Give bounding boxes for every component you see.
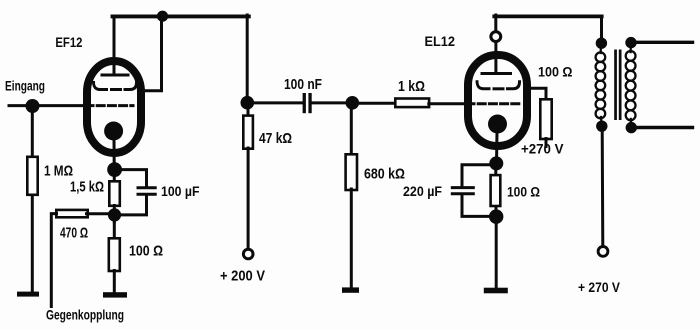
tube EL12 envelope: [468, 55, 527, 146]
wire 1M bottom lead: [31, 196, 34, 293]
wire EL12 anode to transformer (top rail right): [494, 14, 601, 18]
wire 47k top lead: [247, 106, 250, 116]
wire top rail down to anode load node: [246, 15, 249, 100]
ground below EF12 cathode resistor: [103, 292, 127, 297]
wire top cap into anode: [494, 42, 497, 74]
EF12 cathode: [104, 122, 123, 141]
wire 1,5k bottom lead: [113, 206, 116, 223]
EF12 anode plate: [102, 74, 128, 77]
wire EL12 cathode lead: [495, 132, 499, 164]
wire EF12 anode lead: [113, 17, 116, 76]
capacitor C 220uF plates: [452, 186, 473, 189]
node cathode network junction: [108, 208, 121, 221]
wire secondary output bottom: [635, 126, 693, 129]
svg-text:1 MΩ: 1 MΩ: [44, 162, 73, 179]
svg-text:+270 V: +270 V: [521, 142, 564, 157]
wire 100uF branch bottom: [118, 196, 147, 215]
wire 47k to +200V terminal: [247, 148, 250, 248]
resistor R 100 Ohm EL12 cathode: [491, 175, 501, 206]
ground below EL12 cathode: [484, 288, 508, 294]
transformer secondary top dot: [625, 37, 636, 48]
svg-text:470 Ω: 470 Ω: [60, 225, 88, 242]
resistor R 100 Ohm screen: [540, 99, 551, 139]
EF12 screen grid: [94, 83, 107, 90]
wire top cap lead up: [494, 15, 497, 32]
wire primary to +270V terminal: [601, 129, 605, 246]
wire EL12 cathode to ground: [495, 222, 498, 288]
wire screen resistor stub to +270V: [545, 139, 548, 147]
tube EF12 envelope: [87, 61, 141, 153]
ground below 1M: [17, 292, 39, 297]
svg-text:+ 200 V: + 200 V: [220, 268, 265, 285]
wire input Eingang: [9, 104, 86, 107]
svg-text:680 kΩ: 680 kΩ: [364, 165, 405, 182]
svg-text:Eingang: Eingang: [5, 79, 45, 94]
resistor R 47 kOhm: [243, 116, 253, 149]
node EL12 grid network: [346, 96, 360, 110]
wire EF12 cathode lead: [113, 139, 116, 181]
svg-text:1 kΩ: 1 kΩ: [398, 78, 425, 95]
EL12 anode plate: [482, 72, 511, 75]
svg-text:1,5 kΩ: 1,5 kΩ: [70, 179, 104, 196]
svg-text:100 Ω: 100 Ω: [507, 184, 540, 200]
EL12 control grid: [467, 102, 520, 105]
wire EF12 anode to 47k node (top rail): [113, 14, 249, 18]
svg-text:47 kΩ: 47 kΩ: [259, 130, 292, 147]
resistor R 1 MOhm: [27, 157, 37, 195]
wire down to primary: [600, 16, 603, 40]
wire node to 100nF: [247, 101, 302, 104]
svg-text:220 µF: 220 µF: [403, 184, 442, 199]
resistor R 470 Ohm: [56, 210, 87, 217]
wire secondary output top: [635, 41, 693, 44]
EF12 control grid: [86, 104, 133, 107]
wire 100uF branch top: [118, 170, 147, 187]
svg-text:100 µF: 100 µF: [161, 183, 200, 199]
EL12 screen grid: [477, 82, 489, 89]
EL12 cathode: [488, 115, 507, 134]
wire screen to top rail: [139, 17, 162, 91]
resistor R 1,5 kOhm: [109, 181, 120, 206]
wire 100 Ohm top lead: [113, 218, 116, 240]
svg-text:100 Ω: 100 Ω: [129, 243, 163, 260]
wire 470 right lead: [87, 212, 111, 215]
capacitor C 100nF: [303, 93, 306, 113]
wire EL12 cathode resistor leads: [494, 167, 497, 177]
svg-text:+ 270 V: + 270 V: [578, 279, 621, 295]
node cathode resistor bottom junction: [489, 209, 503, 223]
svg-text:Gegenkopplung: Gegenkopplung: [46, 307, 124, 322]
wire 100 Ohm bottom lead: [113, 271, 116, 293]
transformer primary winding: [596, 46, 606, 122]
transformer T1 primary top dot: [596, 38, 607, 49]
wire 220uF branch top: [462, 165, 493, 186]
wire 1k to EL12 grid: [429, 102, 467, 105]
wire 100nF to grid node: [312, 101, 353, 104]
resistor R 1 kOhm: [395, 99, 429, 108]
svg-text:EF12: EF12: [55, 34, 82, 50]
node EF12 cathode junction: [107, 162, 122, 177]
resistor R 100 Ohm EF12 cathode: [109, 238, 120, 271]
capacitor C 100uF plates: [138, 186, 155, 189]
terminal EL12 top cap: [491, 32, 501, 42]
node screen tap: [157, 11, 168, 22]
wire grid node to 1k: [353, 102, 396, 105]
wire 220uF branch bottom: [462, 195, 492, 216]
wire 680k to ground: [350, 189, 353, 289]
transformer primary bottom dot: [596, 121, 607, 132]
node EL12 cathode junction: [489, 156, 503, 170]
resistor R 680 kOhm: [346, 154, 357, 190]
node anode load / coupling: [241, 96, 255, 110]
ground below 680k: [342, 287, 359, 292]
terminal +270V output stage: [598, 247, 608, 257]
svg-text:100 Ω: 100 Ω: [538, 65, 573, 80]
transformer core: [614, 50, 617, 121]
wire 470 left lead and feedback line: [51, 214, 56, 307]
wire 680k top lead: [350, 106, 353, 155]
transformer secondary winding: [626, 46, 636, 124]
wire 1M top lead: [31, 106, 34, 157]
svg-text:100 nF: 100 nF: [284, 76, 322, 93]
terminal +200V: [243, 249, 253, 259]
svg-text:EL12: EL12: [425, 33, 456, 49]
node input junction: [26, 99, 40, 113]
transformer secondary bottom dot: [626, 122, 637, 133]
wire EL12 screen to 100 Ohm: [527, 88, 546, 99]
